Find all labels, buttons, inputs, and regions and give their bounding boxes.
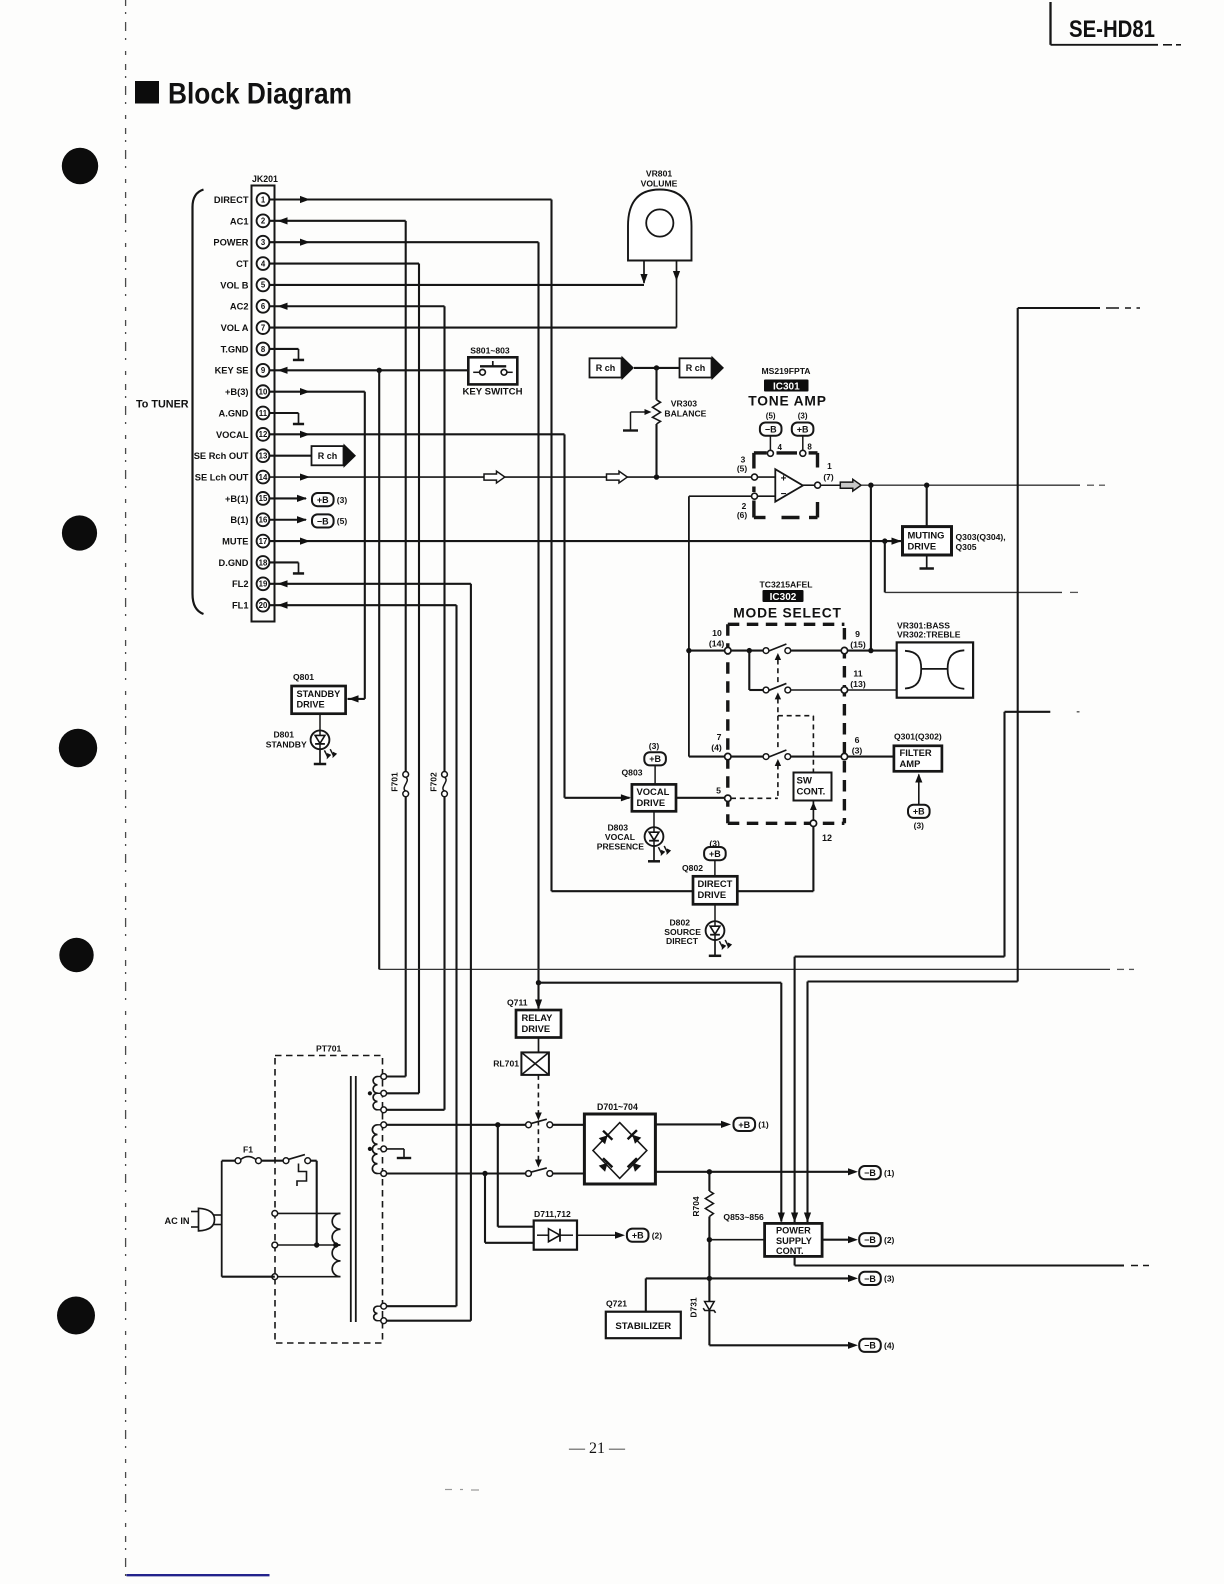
svg-text:4: 4 bbox=[261, 259, 266, 268]
svg-text:R ch: R ch bbox=[596, 363, 616, 373]
svg-text:Q801: Q801 bbox=[293, 672, 314, 682]
svg-text:6: 6 bbox=[855, 735, 860, 745]
svg-text:BALANCE: BALANCE bbox=[664, 409, 706, 419]
svg-text:FL2: FL2 bbox=[232, 579, 249, 589]
svg-text:12: 12 bbox=[259, 430, 268, 439]
svg-text:5: 5 bbox=[261, 281, 266, 290]
svg-text:DIRECT: DIRECT bbox=[666, 936, 699, 946]
svg-text:PT701: PT701 bbox=[316, 1044, 342, 1054]
svg-text:8: 8 bbox=[807, 443, 812, 452]
svg-text:SE Lch OUT: SE Lch OUT bbox=[195, 472, 249, 482]
svg-text:SE Rch OUT: SE Rch OUT bbox=[194, 451, 249, 461]
svg-text:VOL B: VOL B bbox=[220, 280, 249, 290]
svg-text:(3): (3) bbox=[852, 746, 863, 756]
svg-text:10: 10 bbox=[712, 628, 722, 638]
svg-text:MS219FPTA: MS219FPTA bbox=[761, 366, 810, 376]
svg-text:KEY SE: KEY SE bbox=[215, 366, 249, 376]
svg-text:DIRECT: DIRECT bbox=[214, 195, 249, 205]
svg-text:DRIVE: DRIVE bbox=[522, 1023, 551, 1034]
svg-text:1: 1 bbox=[261, 195, 266, 204]
svg-text:(7): (7) bbox=[823, 472, 833, 482]
svg-text:KEY SWITCH: KEY SWITCH bbox=[462, 387, 522, 398]
svg-text:−B: −B bbox=[864, 1168, 876, 1178]
svg-text:F701: F701 bbox=[390, 772, 400, 792]
svg-text:7: 7 bbox=[261, 323, 265, 332]
svg-text:−B: −B bbox=[864, 1235, 876, 1245]
svg-text:VR801: VR801 bbox=[646, 169, 672, 179]
svg-text:D803: D803 bbox=[607, 823, 628, 833]
svg-text:−B: −B bbox=[765, 425, 777, 435]
svg-text:To TUNER: To TUNER bbox=[136, 399, 189, 411]
svg-text:Q301(Q302): Q301(Q302) bbox=[894, 732, 942, 742]
svg-text:(4): (4) bbox=[711, 743, 722, 753]
svg-text:(3): (3) bbox=[914, 821, 924, 831]
svg-text:5: 5 bbox=[716, 786, 721, 796]
svg-text:POWER: POWER bbox=[213, 238, 248, 248]
svg-text:−B: −B bbox=[317, 516, 329, 526]
svg-text:CT: CT bbox=[236, 259, 249, 269]
svg-text:(3): (3) bbox=[884, 1274, 895, 1284]
svg-text:17: 17 bbox=[259, 537, 268, 546]
svg-text:9: 9 bbox=[261, 366, 266, 375]
svg-text:+B: +B bbox=[709, 849, 721, 859]
svg-text:FILTER: FILTER bbox=[900, 747, 932, 758]
svg-text:1: 1 bbox=[827, 461, 832, 471]
svg-text:11: 11 bbox=[853, 669, 862, 679]
svg-text:−B: −B bbox=[864, 1274, 876, 1284]
svg-text:D.GND: D.GND bbox=[219, 558, 249, 568]
svg-text:(15): (15) bbox=[850, 640, 866, 650]
svg-text:CONT.: CONT. bbox=[797, 787, 826, 798]
svg-text:D801: D801 bbox=[273, 730, 294, 740]
svg-text:6: 6 bbox=[261, 302, 266, 311]
svg-text:JK201: JK201 bbox=[252, 174, 278, 184]
svg-text:RL701: RL701 bbox=[493, 1059, 519, 1069]
svg-text:MODE SELECT: MODE SELECT bbox=[733, 606, 841, 621]
svg-text:MUTE: MUTE bbox=[222, 537, 248, 547]
svg-text:(2): (2) bbox=[652, 1230, 663, 1240]
svg-text:IC301: IC301 bbox=[773, 381, 800, 392]
svg-text:FL1: FL1 bbox=[232, 601, 249, 611]
svg-text:(3): (3) bbox=[337, 495, 348, 505]
svg-text:(1): (1) bbox=[758, 1120, 769, 1130]
svg-text:−: − bbox=[781, 489, 787, 500]
svg-text:12: 12 bbox=[822, 833, 832, 843]
svg-text:3: 3 bbox=[261, 238, 266, 247]
svg-text:VOCAL: VOCAL bbox=[637, 786, 670, 797]
svg-text:(6): (6) bbox=[737, 510, 747, 520]
svg-text:F702: F702 bbox=[428, 772, 438, 792]
svg-text:PRESENCE: PRESENCE bbox=[597, 842, 645, 852]
svg-text:T.GND: T.GND bbox=[221, 344, 249, 354]
svg-text:7: 7 bbox=[717, 732, 722, 742]
svg-text:14: 14 bbox=[259, 473, 268, 482]
svg-text:8: 8 bbox=[261, 345, 266, 354]
svg-text:Q305: Q305 bbox=[956, 542, 977, 552]
svg-text:+B: +B bbox=[632, 1231, 644, 1241]
svg-text:MUTING: MUTING bbox=[908, 530, 945, 541]
svg-text:STABILIZER: STABILIZER bbox=[615, 1321, 671, 1332]
svg-text:VOLUME: VOLUME bbox=[641, 179, 678, 189]
svg-text:R ch: R ch bbox=[686, 363, 706, 373]
svg-text:VR302:TREBLE: VR302:TREBLE bbox=[897, 629, 961, 639]
svg-text:R704: R704 bbox=[691, 1196, 701, 1217]
svg-text:(4): (4) bbox=[884, 1341, 895, 1351]
svg-text:4: 4 bbox=[778, 443, 783, 452]
svg-text:+B: +B bbox=[738, 1120, 750, 1130]
svg-text:DRIVE: DRIVE bbox=[297, 700, 325, 710]
svg-text:D701~704: D701~704 bbox=[597, 1102, 638, 1112]
svg-text:VR303: VR303 bbox=[671, 399, 697, 409]
svg-text:20: 20 bbox=[259, 601, 268, 610]
svg-text:−B: −B bbox=[864, 1341, 876, 1351]
svg-text:VOCAL: VOCAL bbox=[605, 832, 635, 842]
svg-text:(5): (5) bbox=[337, 516, 348, 526]
svg-text:AMP: AMP bbox=[900, 758, 921, 769]
svg-text:13: 13 bbox=[259, 452, 268, 461]
svg-text:— 21 —: — 21 — bbox=[568, 1440, 626, 1457]
svg-text:Block Diagram: Block Diagram bbox=[168, 78, 352, 111]
svg-text:AC IN: AC IN bbox=[165, 1216, 190, 1226]
svg-text:(5): (5) bbox=[766, 412, 776, 421]
svg-text:DRIVE: DRIVE bbox=[637, 797, 666, 808]
svg-text:15: 15 bbox=[259, 494, 268, 503]
svg-text:+B: +B bbox=[649, 754, 661, 764]
svg-text:VOCAL: VOCAL bbox=[216, 430, 249, 440]
svg-text:TONE AMP: TONE AMP bbox=[748, 394, 826, 409]
svg-text:B(1): B(1) bbox=[230, 515, 248, 525]
svg-text:D711,712: D711,712 bbox=[534, 1209, 571, 1219]
svg-text:AC2: AC2 bbox=[230, 302, 249, 312]
svg-text:AC1: AC1 bbox=[230, 216, 249, 226]
svg-text:11: 11 bbox=[259, 409, 268, 418]
svg-text:DIRECT: DIRECT bbox=[698, 878, 733, 889]
svg-text:(1): (1) bbox=[884, 1168, 895, 1178]
svg-text:CONT.: CONT. bbox=[776, 1246, 804, 1256]
svg-text:19: 19 bbox=[259, 580, 268, 589]
svg-text:Q303(Q304),: Q303(Q304), bbox=[956, 532, 1006, 542]
svg-text:Q853~856: Q853~856 bbox=[723, 1212, 764, 1222]
svg-text:+B: +B bbox=[913, 807, 925, 817]
svg-text:S801~803: S801~803 bbox=[470, 346, 510, 356]
svg-text:STANDBY: STANDBY bbox=[297, 689, 341, 699]
svg-text:R ch: R ch bbox=[318, 451, 338, 461]
svg-text:16: 16 bbox=[259, 516, 268, 525]
svg-text:SUPPLY: SUPPLY bbox=[776, 1236, 812, 1246]
svg-text:Q802: Q802 bbox=[682, 863, 703, 873]
svg-text:Q803: Q803 bbox=[622, 768, 643, 778]
svg-text:(3): (3) bbox=[649, 741, 660, 751]
svg-text:(3): (3) bbox=[798, 412, 808, 421]
svg-text:+B(3): +B(3) bbox=[225, 387, 249, 397]
svg-text:SE-HD81: SE-HD81 bbox=[1069, 16, 1155, 43]
svg-text:+B: +B bbox=[317, 495, 329, 505]
svg-text:Q721: Q721 bbox=[606, 1299, 627, 1309]
svg-text:DRIVE: DRIVE bbox=[698, 889, 727, 900]
svg-text:Q711: Q711 bbox=[507, 998, 528, 1008]
svg-text:F1: F1 bbox=[243, 1145, 253, 1155]
svg-text:+B(1): +B(1) bbox=[225, 494, 249, 504]
svg-text:STANDBY: STANDBY bbox=[266, 740, 307, 750]
svg-text:+: + bbox=[781, 474, 787, 485]
svg-text:9: 9 bbox=[855, 629, 860, 639]
svg-text:IC302: IC302 bbox=[770, 592, 797, 603]
svg-text:10: 10 bbox=[259, 387, 268, 396]
svg-text:A.GND: A.GND bbox=[219, 408, 249, 418]
svg-text:RELAY: RELAY bbox=[522, 1012, 554, 1023]
svg-text:SW: SW bbox=[797, 776, 813, 787]
svg-text:(5): (5) bbox=[737, 464, 747, 474]
svg-text:D731: D731 bbox=[689, 1297, 699, 1318]
svg-text:VOL A: VOL A bbox=[221, 323, 249, 333]
svg-text:+B: +B bbox=[797, 425, 809, 435]
svg-text:TC3215AFEL: TC3215AFEL bbox=[759, 580, 812, 590]
svg-text:(14): (14) bbox=[709, 639, 725, 649]
svg-text:DRIVE: DRIVE bbox=[908, 541, 937, 552]
svg-text:POWER: POWER bbox=[776, 1226, 811, 1236]
svg-text:18: 18 bbox=[259, 558, 268, 567]
svg-text:2: 2 bbox=[261, 217, 266, 226]
svg-text:(13): (13) bbox=[850, 679, 866, 689]
svg-text:(2): (2) bbox=[884, 1235, 895, 1245]
